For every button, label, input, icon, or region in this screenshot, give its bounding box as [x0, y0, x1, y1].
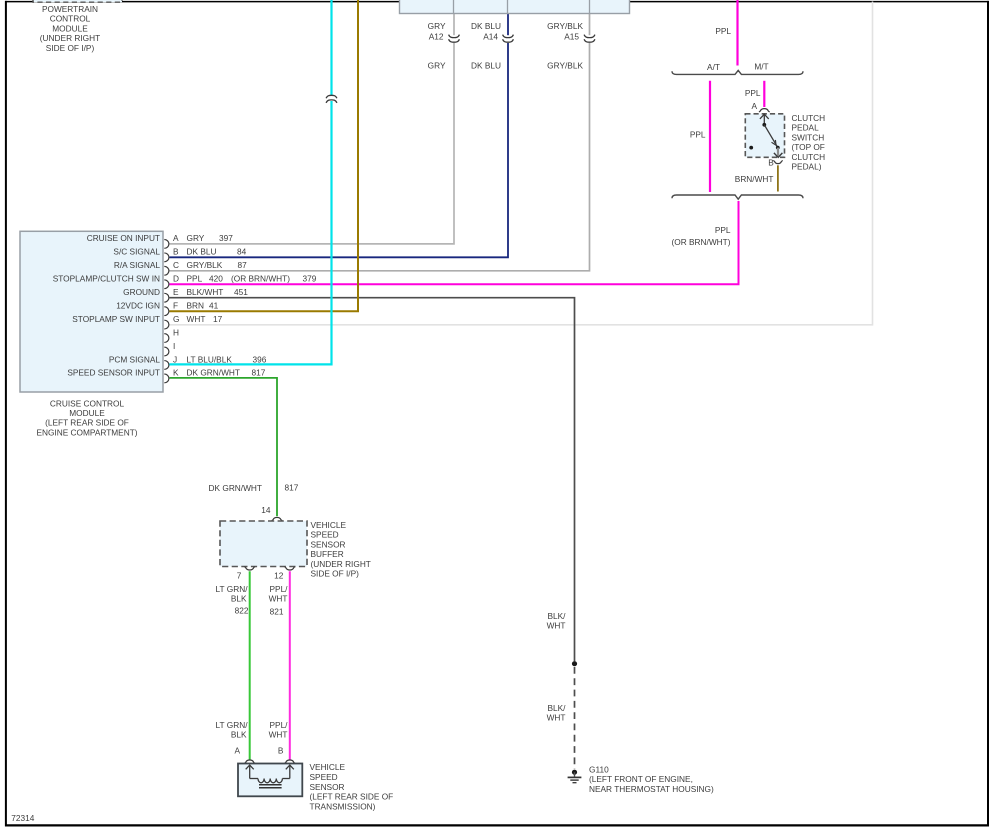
svg-text:(LEFT REAR SIDE OF: (LEFT REAR SIDE OF	[310, 792, 394, 802]
svg-text:420: 420	[209, 274, 223, 284]
svg-text:MODULE: MODULE	[52, 23, 88, 33]
svg-text:87: 87	[238, 260, 248, 270]
svg-text:A14: A14	[483, 32, 498, 42]
svg-text:LT BLU/BLK: LT BLU/BLK	[187, 354, 233, 364]
svg-text:GROUND: GROUND	[123, 287, 160, 297]
svg-text:TRANSMISSION): TRANSMISSION)	[310, 802, 376, 812]
svg-text:A: A	[235, 746, 241, 756]
svg-text:SIDE OF I/P): SIDE OF I/P)	[46, 43, 95, 53]
svg-text:PPL/: PPL/	[270, 720, 289, 730]
svg-text:LT GRN/: LT GRN/	[216, 584, 249, 594]
svg-text:F: F	[173, 300, 178, 310]
svg-text:451: 451	[234, 287, 248, 297]
svg-text:379: 379	[303, 274, 317, 284]
svg-text:17: 17	[213, 314, 223, 324]
svg-text:7: 7	[237, 571, 242, 581]
svg-text:SPEED: SPEED	[310, 772, 338, 782]
svg-text:PCM SIGNAL: PCM SIGNAL	[109, 354, 161, 364]
svg-text:STOPLAMP SW INPUT: STOPLAMP SW INPUT	[72, 314, 160, 324]
svg-text:(LEFT FRONT OF ENGINE,: (LEFT FRONT OF ENGINE,	[589, 774, 693, 784]
svg-text:K: K	[173, 368, 179, 378]
svg-text:12VDC IGN: 12VDC IGN	[116, 300, 160, 310]
svg-text:ENGINE COMPARTMENT): ENGINE COMPARTMENT)	[36, 427, 137, 437]
svg-text:GRY/BLK: GRY/BLK	[547, 61, 583, 71]
svg-text:VEHICLE: VEHICLE	[310, 762, 346, 772]
svg-text:CONTROL: CONTROL	[50, 14, 91, 24]
svg-text:NEAR THERMOSTAT HOUSING): NEAR THERMOSTAT HOUSING)	[589, 784, 714, 794]
svg-text:BLK/WHT: BLK/WHT	[187, 287, 224, 297]
svg-text:(TOP OF: (TOP OF	[792, 142, 825, 152]
svg-text:DK BLU: DK BLU	[471, 61, 501, 71]
svg-text:WHT: WHT	[269, 730, 288, 740]
svg-text:822: 822	[235, 606, 249, 616]
svg-text:PEDAL): PEDAL)	[792, 162, 822, 172]
svg-text:(OR BRN/WHT): (OR BRN/WHT)	[231, 274, 290, 284]
svg-text:SWITCH: SWITCH	[792, 132, 825, 142]
svg-text:SPEED: SPEED	[311, 530, 339, 540]
svg-text:PPL: PPL	[715, 26, 731, 36]
svg-text:G: G	[173, 314, 179, 324]
svg-text:H: H	[173, 327, 179, 337]
svg-text:CRUISE CONTROL: CRUISE CONTROL	[50, 398, 125, 408]
svg-text:SENSOR: SENSOR	[311, 539, 346, 549]
svg-text:G110: G110	[589, 764, 609, 774]
svg-text:POWERTRAIN: POWERTRAIN	[42, 4, 98, 14]
svg-text:14: 14	[261, 505, 271, 515]
svg-text:CLUTCH: CLUTCH	[792, 152, 826, 162]
svg-text:S/C SIGNAL: S/C SIGNAL	[113, 247, 160, 257]
svg-text:BLK/: BLK/	[548, 611, 567, 621]
svg-text:GRY/BLK: GRY/BLK	[547, 21, 583, 31]
svg-text:41: 41	[209, 300, 219, 310]
svg-text:(UNDER RIGHT: (UNDER RIGHT	[311, 559, 371, 569]
svg-text:72314: 72314	[11, 813, 34, 823]
svg-text:STOPLAMP/CLUTCH SW IN: STOPLAMP/CLUTCH SW IN	[53, 274, 160, 284]
svg-text:396: 396	[253, 354, 267, 364]
svg-text:GRY: GRY	[428, 21, 446, 31]
svg-text:817: 817	[252, 368, 266, 378]
svg-text:I: I	[173, 341, 175, 351]
svg-text:MODULE: MODULE	[69, 408, 105, 418]
svg-text:GRY: GRY	[187, 233, 205, 243]
svg-text:SENSOR: SENSOR	[310, 782, 345, 792]
svg-text:BRN/WHT: BRN/WHT	[735, 174, 774, 184]
svg-text:DK GRN/WHT: DK GRN/WHT	[209, 483, 262, 493]
svg-text:M/T: M/T	[754, 62, 768, 72]
svg-text:D: D	[173, 274, 179, 284]
svg-text:A15: A15	[564, 32, 579, 42]
svg-text:(UNDER RIGHT: (UNDER RIGHT	[40, 33, 100, 43]
svg-text:PPL: PPL	[690, 130, 706, 140]
svg-text:BLK/: BLK/	[548, 703, 567, 713]
svg-text:C: C	[173, 260, 179, 270]
svg-text:12: 12	[274, 571, 284, 581]
svg-text:BRN: BRN	[187, 300, 205, 310]
svg-text:DK BLU: DK BLU	[471, 21, 501, 31]
svg-text:397: 397	[219, 233, 233, 243]
svg-text:WHT: WHT	[547, 621, 566, 631]
svg-text:84: 84	[237, 247, 247, 257]
svg-text:A: A	[752, 101, 758, 111]
svg-text:SIDE OF I/P): SIDE OF I/P)	[311, 569, 360, 579]
svg-text:BUFFER: BUFFER	[311, 549, 344, 559]
svg-text:CLUTCH: CLUTCH	[792, 113, 826, 123]
svg-text:PEDAL: PEDAL	[792, 123, 820, 133]
svg-text:PPL: PPL	[187, 274, 203, 284]
svg-text:817: 817	[285, 483, 299, 493]
svg-text:B: B	[173, 247, 179, 257]
svg-text:PPL: PPL	[745, 88, 761, 98]
svg-text:BLK: BLK	[231, 730, 247, 740]
svg-text:B: B	[768, 158, 774, 168]
svg-text:WHT: WHT	[187, 314, 206, 324]
svg-text:SPEED SENSOR INPUT: SPEED SENSOR INPUT	[67, 368, 160, 378]
svg-text:GRY/BLK: GRY/BLK	[187, 260, 223, 270]
svg-text:J: J	[173, 354, 177, 364]
svg-text:E: E	[173, 287, 179, 297]
svg-text:BLK: BLK	[231, 594, 247, 604]
svg-text:WHT: WHT	[547, 713, 566, 723]
svg-text:B: B	[278, 746, 284, 756]
svg-text:PPL/: PPL/	[270, 584, 289, 594]
svg-text:DK BLU: DK BLU	[187, 247, 217, 257]
svg-text:R/A SIGNAL: R/A SIGNAL	[114, 260, 160, 270]
svg-text:A12: A12	[429, 32, 444, 42]
svg-text:CRUISE ON INPUT: CRUISE ON INPUT	[87, 233, 160, 243]
svg-text:821: 821	[270, 607, 284, 617]
svg-text:A: A	[173, 233, 179, 243]
svg-text:(LEFT REAR SIDE OF: (LEFT REAR SIDE OF	[45, 418, 129, 428]
svg-text:VEHICLE: VEHICLE	[311, 520, 347, 530]
svg-text:PPL: PPL	[715, 225, 731, 235]
svg-text:WHT: WHT	[269, 594, 288, 604]
svg-text:(OR BRN/WHT): (OR BRN/WHT)	[672, 237, 731, 247]
svg-text:GRY: GRY	[428, 61, 446, 71]
svg-text:LT GRN/: LT GRN/	[216, 720, 249, 730]
svg-text:DK GRN/WHT: DK GRN/WHT	[187, 368, 240, 378]
svg-text:A/T: A/T	[707, 62, 720, 72]
